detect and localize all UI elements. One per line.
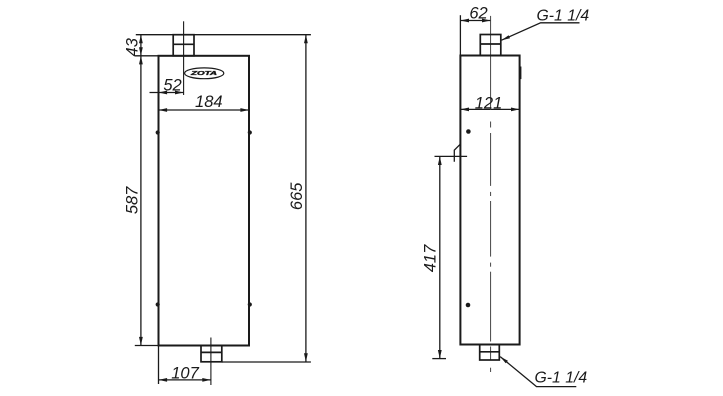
- svg-text:G-1 1/4: G-1 1/4: [535, 370, 588, 387]
- svg-text:43: 43: [123, 37, 141, 56]
- svg-text:665: 665: [288, 182, 306, 210]
- svg-text:184: 184: [195, 93, 223, 111]
- svg-text:ZOTA: ZOTA: [189, 71, 218, 77]
- svg-text:52: 52: [163, 77, 181, 95]
- svg-text:121: 121: [475, 95, 503, 113]
- svg-text:417: 417: [422, 244, 440, 272]
- svg-text:G-1 1/4: G-1 1/4: [537, 8, 590, 25]
- svg-text:107: 107: [171, 365, 199, 383]
- svg-text:587: 587: [124, 186, 142, 214]
- svg-text:62: 62: [469, 5, 487, 23]
